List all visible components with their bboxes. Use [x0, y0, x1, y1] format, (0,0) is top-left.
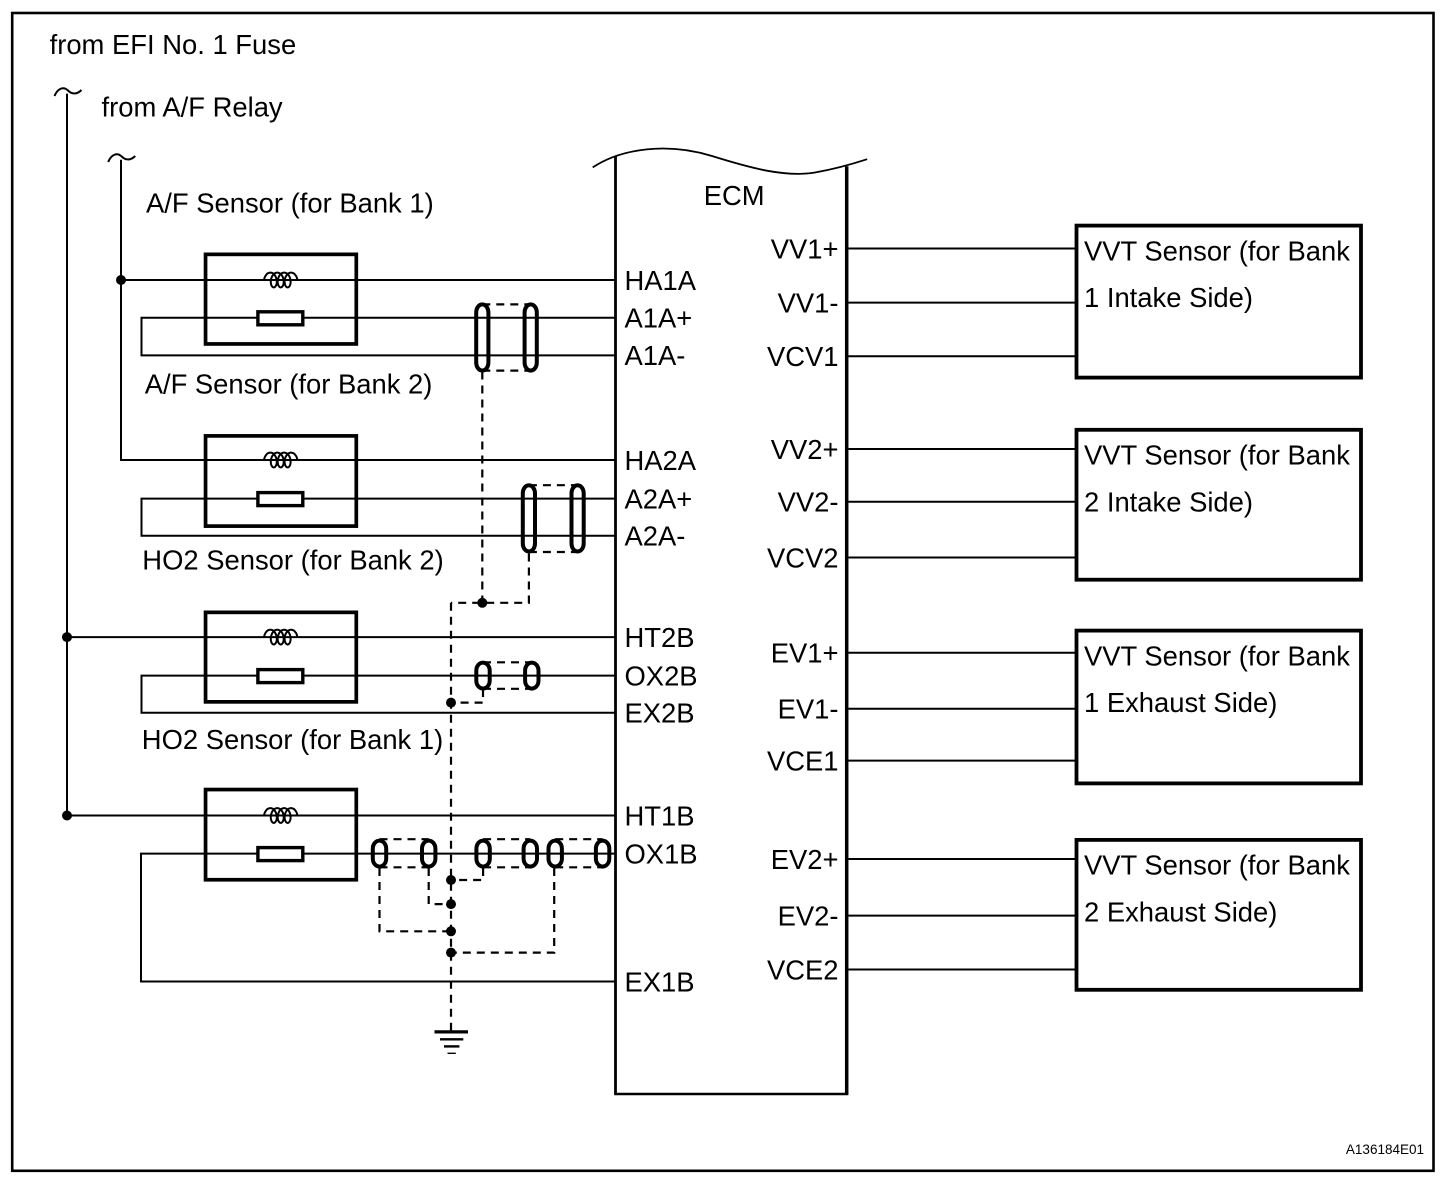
wire: A/F Relay rail (vertical, corners into HA2A) [121, 160, 615, 460]
svg-text:from A/F Relay: from A/F Relay [102, 92, 283, 123]
junction dot OX1B drain 5 [446, 948, 456, 958]
svg-text:VVT Sensor (for Bank: VVT Sensor (for Bank [1084, 640, 1350, 671]
wire HT2B [67, 636, 615, 638]
svg-text:A/F Sensor (for Bank 2): A/F Sensor (for Bank 2) [145, 368, 433, 399]
sensor box: A/F Sensor (for Bank 2) [206, 436, 357, 526]
svg-text:A136184E01: A136184E01 [1346, 1142, 1424, 1157]
shield symbols OX1B (six small grommets) [373, 839, 610, 867]
ECM box (torn wavy top) [593, 149, 868, 1094]
svg-text:VVT Sensor (for Bank: VVT Sensor (for Bank [1084, 440, 1350, 471]
heater coil, A/F Sensor Bank 2 [264, 453, 297, 468]
junction dot on EFI rail at HT1B [62, 811, 72, 821]
shield drain wire A1A (dashed drop) [481, 372, 483, 603]
svg-text:VV2+: VV2+ [771, 434, 839, 465]
shield drain wire OX1B grommet 1 (dashed) [380, 868, 452, 931]
wire EV2- [848, 915, 1076, 917]
wire EV1+ [848, 652, 1076, 654]
heater coil, HO2 Sensor Bank 1 [264, 808, 297, 823]
svg-text:VCV2: VCV2 [767, 542, 839, 573]
shield drain bus (main dashed vertical to ground) [450, 603, 452, 1031]
svg-text:1 Intake Side): 1 Intake Side) [1084, 282, 1253, 313]
wire VCE2 [848, 969, 1076, 971]
svg-text:VCV1: VCV1 [767, 341, 839, 372]
wire HA1A [121, 279, 615, 281]
shield twisted-pair symbol A1A (two grommets) [476, 304, 537, 370]
svg-text:VV1+: VV1+ [771, 233, 839, 264]
wire VCV1 [848, 355, 1076, 357]
junction dot shield drains A1A/A2A [477, 598, 487, 608]
wire EV1- [848, 708, 1076, 710]
heater coil, HO2 Sensor Bank 2 [264, 630, 297, 645]
sensing element resistor, HO2 Sensor Bank 1 [258, 848, 303, 861]
junction dot on A/F relay rail at HA1A [116, 275, 126, 285]
svg-text:2 Intake Side): 2 Intake Side) [1084, 486, 1253, 517]
shield drain wire OX1B grommet 5 (dashed) [451, 868, 554, 953]
junction dot on EFI rail at HT2B [62, 632, 72, 642]
wire VV1+ [848, 248, 1076, 250]
svg-text:VCE2: VCE2 [767, 954, 839, 985]
wire A2A+ (with left return loop to A2A-) [142, 499, 615, 536]
svg-text:1 Exhaust Side): 1 Exhaust Side) [1084, 687, 1277, 718]
shield drain wire OX1B grommet 2 (dashed) [429, 868, 451, 904]
sensing element resistor, A/F Sensor Bank 1 [258, 312, 303, 325]
shield symbol OX2B (two small grommets) [476, 662, 538, 689]
svg-text:from EFI No. 1 Fuse: from EFI No. 1 Fuse [50, 29, 297, 60]
VVT Sensor box (Bank 2 Exhaust) [1077, 840, 1362, 990]
VVT Sensor box (Bank 2 Intake) [1077, 430, 1362, 580]
svg-text:EV1-: EV1- [778, 694, 839, 725]
junction dot OX1B drain 3 [446, 875, 456, 885]
svg-text:VCE1: VCE1 [767, 745, 839, 776]
source squiggle (A/F Relay rail) [108, 154, 135, 162]
junction dot OX1B drain 1 [446, 926, 456, 936]
wire EV2+ [848, 858, 1076, 860]
svg-text:EX1B: EX1B [625, 966, 695, 997]
wire: EFI No.1 Fuse rail (vertical) [66, 94, 68, 816]
svg-text:HA1A: HA1A [625, 265, 697, 296]
svg-text:VVT Sensor (for Bank: VVT Sensor (for Bank [1084, 235, 1350, 266]
shield drain wire OX2B (dashed) [451, 689, 483, 703]
VVT Sensor box (Bank 1 Exhaust) [1077, 631, 1362, 784]
svg-text:VV1-: VV1- [778, 287, 839, 318]
wire VV1- [848, 302, 1076, 304]
sensor box: HO2 Sensor (for Bank 1) [206, 790, 357, 880]
wire A1A+ (with left return loop) [142, 318, 615, 356]
sensing element resistor, A/F Sensor Bank 2 [258, 493, 303, 506]
svg-text:EV2-: EV2- [778, 900, 839, 931]
wire VV2+ [848, 448, 1076, 450]
svg-text:A/F Sensor (for Bank 1): A/F Sensor (for Bank 1) [146, 187, 434, 218]
svg-text:OX2B: OX2B [625, 660, 698, 691]
svg-text:VV2-: VV2- [778, 487, 839, 518]
svg-text:A1A-: A1A- [625, 340, 686, 371]
svg-text:HA2A: HA2A [625, 445, 697, 476]
sensor box: HO2 Sensor (for Bank 2) [206, 612, 357, 702]
svg-text:EV1+: EV1+ [771, 638, 839, 669]
svg-text:HT2B: HT2B [625, 622, 695, 653]
wire HT1B [67, 815, 615, 817]
svg-text:ECM: ECM [704, 180, 765, 211]
junction dot OX1B drain 2 [446, 899, 456, 909]
wire VCV2 [848, 557, 1076, 559]
svg-text:HT1B: HT1B [625, 800, 695, 831]
sensor box: A/F Sensor (for Bank 1) [206, 254, 357, 344]
junction dot OX2B drain [446, 698, 456, 708]
svg-text:HO2 Sensor (for Bank 2): HO2 Sensor (for Bank 2) [142, 545, 443, 576]
svg-text:A2A+: A2A+ [625, 483, 693, 514]
VVT Sensor box (Bank 1 Intake) [1077, 226, 1362, 378]
wire OX2B (with left return loop to EX2B) [142, 676, 615, 713]
shield drain wire OX1B grommet 3 (dashed) [451, 868, 483, 880]
wire VCE1 [848, 760, 1076, 762]
svg-text:2 Exhaust Side): 2 Exhaust Side) [1084, 897, 1277, 928]
svg-text:OX1B: OX1B [625, 838, 698, 869]
sensing element resistor, HO2 Sensor Bank 2 [258, 670, 303, 683]
svg-text:EV2+: EV2+ [771, 844, 839, 875]
svg-text:HO2 Sensor (for Bank 1): HO2 Sensor (for Bank 1) [142, 724, 443, 755]
ground symbol [435, 1032, 469, 1053]
wire VV2- [848, 501, 1076, 503]
heater coil, A/F Sensor Bank 1 [264, 273, 297, 288]
wire OX1B (with left return loop to EX1B) [141, 854, 615, 982]
svg-text:VVT Sensor (for Bank: VVT Sensor (for Bank [1084, 850, 1350, 881]
source squiggle (EFI No.1 Fuse rail) [55, 88, 82, 96]
svg-text:EX2B: EX2B [625, 698, 695, 729]
shield drain wire A2A (dashed drop) [451, 554, 529, 603]
svg-text:A2A-: A2A- [625, 521, 686, 552]
svg-text:A1A+: A1A+ [625, 303, 693, 334]
shield twisted-pair symbol A2A (two grommets) [523, 485, 584, 552]
